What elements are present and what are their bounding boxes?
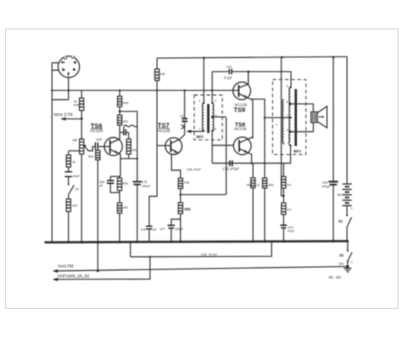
resistor R53 [117,178,121,191]
wire R59 to bus [180,214,182,243]
svg-text:470µF: 470µF [322,185,331,189]
switch S4 [68,184,74,195]
wire R57 to bus [68,212,70,243]
capacitor C75 [133,182,142,185]
wire BF2 to speaker bottom [291,123,314,132]
wire R53 connections [119,176,121,192]
svg-text:C26,,47µF: C26,,47µF [187,168,201,172]
wire J1 bottom pin down [68,78,70,100]
node rail junction x333 [332,56,334,58]
wire C81 to bus [332,185,334,242]
wire R58 to node [180,189,182,203]
wire below bus x130 [129,242,131,257]
svg-text:548: 548 [184,181,189,185]
wire BF2 primary bottom down [290,145,292,163]
wire horizontal y90 net [52,89,233,91]
capacitor C70 feedback [124,129,126,135]
wire feedback top [120,111,138,158]
node x137 [136,158,138,160]
transformer BF2 box [273,80,306,155]
resistor R57 [66,199,70,212]
wire BF1 secondary top up [211,72,213,103]
wire R61 column [252,163,254,242]
transistor TS8 [234,137,253,155]
node feedback junction [119,110,121,112]
wire R60 to bus [119,213,121,242]
bus node dots [44,241,46,243]
svg-text:AC125: AC125 [157,128,170,133]
svg-text:6: 6 [287,128,289,132]
wire R55 to TS6 [119,125,121,139]
svg-text:AC128: AC128 [234,126,246,131]
svg-text:C76: C76 [226,65,232,69]
svg-text:R48: R48 [74,103,80,107]
BF2 tap dots [290,86,292,88]
svg-text:Vers FM: Vers FM [58,263,74,268]
top supply rail [157,57,347,59]
svg-text:C48: C48 [96,138,102,142]
wire R50 to C72 [68,167,70,172]
svg-text:9: 9 [287,84,289,88]
wire BF1 tap to x226 [212,116,226,118]
svg-text:S4: S4 [75,187,79,191]
svg-text:BF2: BF2 [294,150,301,154]
capacitor C71 [146,226,152,229]
wire R63 column [283,163,285,203]
P1 wiper arrow [84,146,88,151]
svg-text:10µF: 10µF [73,174,80,178]
transformer BF1 box [194,95,222,140]
BF1 primary winding [202,103,204,131]
wire R64 to C79 [283,214,285,225]
wire chain top to pot [69,150,80,152]
wire x157 sub column to bus [149,146,157,226]
wire TS7 base [157,145,171,147]
svg-text:R62: R62 [268,183,274,187]
svg-text:B4 - 169: B4 - 169 [329,275,341,279]
chassis bus [45,241,348,242]
wire TS9 emitter to TS8 collector [249,98,253,139]
wire RC pair bottom bar [110,192,119,194]
svg-text:TS9: TS9 [234,107,246,114]
node bus right end [346,240,349,243]
wire TS8 emitter down [249,153,252,163]
wire C70 stubs [120,131,129,133]
capacitor C76 [229,69,231,74]
svg-text:455: 455 [123,119,128,123]
svg-text:s: s [276,123,278,126]
svg-text:R51: R51 [88,155,94,159]
J1 pin 3 [73,69,75,70]
capacitor C81 [329,182,339,185]
transistor TS6 [104,138,122,156]
node TS9 collector net [247,71,249,73]
svg-text:R53: R53 [123,182,129,186]
resistor R58 [178,178,182,188]
svg-text:8: 8 [287,100,289,104]
svg-text:1: 1 [258,183,260,187]
net arrow Vers C79 [63,118,82,120]
svg-text:R59: R59 [185,207,191,211]
wire switch to R57 [68,195,70,199]
svg-text:R61: R61 [247,183,253,187]
ground chassis [344,265,352,272]
wire chain to R50 [68,151,70,155]
resistor R54 [155,69,159,81]
svg-text:1k: 1k [72,160,76,164]
svg-text:3n9: 3n9 [141,227,146,231]
resistor R55 [118,115,122,125]
svg-text:2: 2 [74,61,76,65]
wire x137 column [136,159,138,243]
svg-text:AC125: AC125 [90,128,103,133]
svg-text:8 k: 8 k [287,183,292,187]
svg-text:7: 7 [199,127,201,131]
wire C77 branch [171,219,180,225]
wire BF2 to speaker top [291,104,314,112]
J1 pin 4 [62,61,65,64]
node junction Vers C79 [80,118,82,120]
node line B joins [149,256,151,258]
svg-text:4: 4 [199,99,201,103]
resistor R60 [117,203,121,213]
J1 cable tab [52,63,59,70]
wire emitter net to x226 [181,194,227,196]
resistor R62 [263,178,267,188]
wire S1 to bus [346,227,348,241]
svg-text:3: 3 [73,68,75,72]
wire squiggle to C-fb [123,126,125,129]
wire feedback squiggle [124,125,137,127]
wire TS7 emitter down [172,154,181,178]
wire y256 return [130,242,271,257]
svg-text:C78,,470µF: C78,,470µF [222,167,240,171]
wire right column x333 from rail [332,57,334,181]
capacitor C77 [168,225,175,228]
svg-text:µF: µF [153,227,157,231]
svg-text:47µF: 47µF [288,229,295,233]
wire R62 to bus [264,188,266,242]
wire J1 left down to bus [51,70,53,242]
wire battery to S1 [346,206,348,215]
wire TS9 emitter branch right [251,99,265,178]
wire BF1 primary bottom to TS7 collector arrow [188,130,204,132]
transistor TS7 [165,138,182,155]
wire C76 left [212,71,229,73]
node rail junction x203 [203,57,205,59]
wire TS6 emitter down [119,154,121,176]
svg-text:100µF: 100µF [175,227,184,231]
wire C73 to TS6 base [98,146,110,148]
node y90/x157 [156,89,158,91]
node y90/x52 [51,89,53,91]
transistor TS9 [233,72,251,100]
resistor R48 [79,98,83,111]
wire C79 to bus [283,228,285,242]
wire x226 tap column [225,118,227,195]
svg-text:277: 277 [160,227,165,231]
wire R51 to bus and line A [97,160,99,271]
wire collector node horizontal [120,158,137,160]
node y90/x184.6 [184,89,186,91]
capacitor C78 [230,160,233,166]
net line A Vers FM [55,267,347,271]
potentiometer P1 volume [80,139,84,154]
svg-text:NF: NF [73,139,78,143]
switch S1 [346,215,352,227]
switch S2 [347,242,352,267]
svg-text:BF1: BF1 [197,135,204,139]
wire TS8 base [212,144,234,146]
battery B1 [342,184,351,206]
wire node to BF2 primary top [248,72,291,88]
wire R56 bottom [128,154,130,159]
BF2 core [295,89,297,146]
BF1 secondary winding [212,103,214,131]
wire C72 to switch [68,177,70,184]
wire BF1 primary top to rail [203,58,205,103]
resistor R51 [96,150,100,159]
resistor R63 [281,177,285,189]
wire R54 to y90 and TS7 base [156,81,158,146]
wire J1 return to left rail [52,99,69,101]
speaker LS [311,106,327,128]
J1 pin 2 [74,61,77,63]
wire R49 to node [119,107,121,116]
svg-text:1k6: 1k6 [132,148,137,152]
wire rail right corner down to battery [346,57,348,184]
wire to R60 [119,193,121,203]
chevron mark collector [181,125,184,129]
svg-text:S1: S1 [338,219,342,223]
wire R48 to node C79 [81,111,83,141]
wire C69 to y90 [184,90,186,118]
node R63-R64 [283,195,285,197]
capacitor C79 [280,225,287,228]
svg-text:6V: 6V [337,193,342,197]
node y90/x119.7 [119,89,121,91]
capacitor C72 [65,172,72,177]
svg-text:15k: 15k [72,204,77,208]
svg-text:100µF: 100µF [142,184,151,188]
svg-text:1: 1 [67,73,69,77]
resistor R61 [251,178,255,188]
svg-text:µF: µF [99,184,103,188]
wire C76 right to node [232,71,249,73]
svg-text:240: 240 [123,205,128,209]
node x264 tap [264,117,266,119]
wire C74 stubs [109,176,111,192]
wire x119.7 y90 to R49 [119,90,121,96]
svg-text:+: + [351,260,353,264]
wire wiper to C73 [88,147,95,151]
wire BF1 secondary bottom down [211,131,213,164]
svg-text:4: 4 [61,61,63,65]
capacitor C73 [95,142,97,150]
svg-text:6 k: 6 k [287,208,292,212]
wire C71 to bus [148,229,150,242]
capacitor C74 emitter bypass [107,181,114,184]
wire y163 line [212,162,291,164]
node rail-R54 corner [156,58,158,69]
J1 pin 5 [63,69,65,70]
wire C77 to bus [170,228,172,242]
svg-text:5: 5 [215,99,217,103]
svg-text:C2: C2 [180,114,184,118]
svg-text:4,7µF: 4,7µF [224,76,233,80]
svg-text:Vers C79: Vers C79 [54,112,73,117]
capacitor C69 trimmer [182,119,188,122]
svg-text:548: 548 [160,72,165,76]
svg-text:5: 5 [62,68,64,72]
node emitter net [179,194,181,196]
node x264 y163 [264,162,266,164]
wire BF2 tap line [265,117,291,119]
wire C70 to R56 [128,132,130,139]
resistor R59 [178,203,182,214]
BF2 primary winding [289,88,291,146]
resistor R64 [281,203,285,215]
node y163 x251 [251,162,253,164]
node y90/x68.5 [68,89,70,91]
resistor R50 [66,155,70,167]
node y90/x212.2 [211,89,213,91]
J1 pin 1 [68,72,70,75]
svg-text:VHF1945,,26,,33: VHF1945,,26,,33 [57,274,89,279]
svg-text:R49: R49 [123,101,129,105]
wire node to R51 [97,149,99,152]
svg-text:+: + [351,206,353,210]
wire TS7 collector up [180,123,185,140]
resistor R56 [127,139,131,154]
BF1 core [207,104,209,133]
BF1 pin dots [203,102,205,104]
BF2 secondary small winding [282,100,283,145]
svg-text:7k,NO: 7k,NO [209,252,218,256]
wire feedback from BF2 [281,57,283,196]
svg-text:8: 8 [215,127,217,131]
svg-text:Vm: Vm [339,262,344,266]
resistor R49 [118,96,122,106]
wire x81.6 from y90 to R48 [81,90,83,98]
connector J1 DIN socket [58,56,79,78]
svg-text:S2: S2 [339,253,343,257]
svg-text:-: - [351,180,352,184]
node rail junction x282 [281,56,283,58]
node line A x97 [97,270,99,272]
svg-text:C36: C36 [201,252,207,256]
net line B VHF [55,257,150,280]
wire RC pair top bar [110,175,120,177]
wire P1 bottom to bus [81,154,83,242]
